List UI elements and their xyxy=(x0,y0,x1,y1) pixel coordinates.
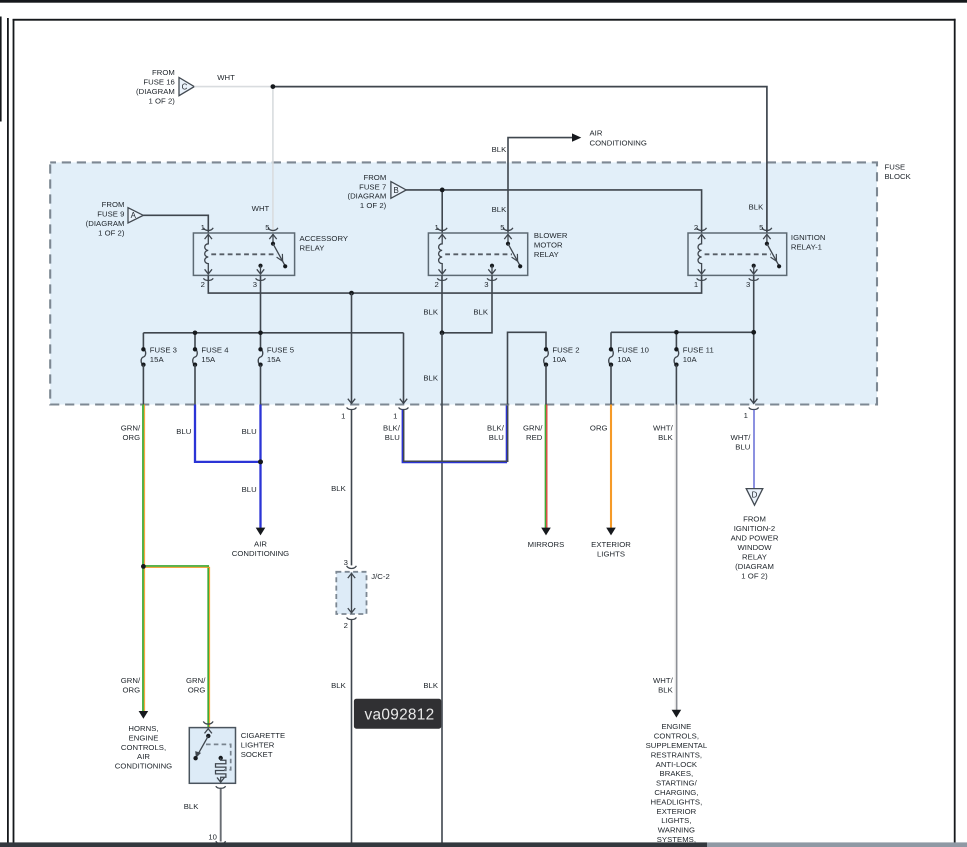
relay : BLOWER MOTOR RELAY xyxy=(428,223,568,289)
svg-text:BRAKES,: BRAKES, xyxy=(660,769,694,778)
wire : left fuse rail xyxy=(143,332,403,334)
wire BLK : blower relay pin 5 up and right to AIR CONDITIONING xyxy=(508,138,572,233)
fuse F4 15A xyxy=(193,349,198,364)
svg-text:LIGHTER: LIGHTER xyxy=(241,740,275,749)
svg-text:RED: RED xyxy=(526,433,543,442)
wire : fuse 3 to block edge xyxy=(142,365,144,405)
fuse F5 15A xyxy=(258,349,263,364)
svg-text:1: 1 xyxy=(341,412,345,421)
svg-text:5: 5 xyxy=(759,223,763,232)
svg-text:10A: 10A xyxy=(683,355,698,364)
fuse F3 15A xyxy=(141,349,146,364)
svg-text:2: 2 xyxy=(344,621,348,630)
wire : fuse 4 to block edge xyxy=(194,365,196,405)
svg-text:GRN/: GRN/ xyxy=(523,424,543,433)
svg-text:FUSE: FUSE xyxy=(885,163,906,172)
connector triangle D : FROM IGNITION-2 xyxy=(746,489,763,506)
wire : ignition pin 3 down through rail to connector pin 1 xyxy=(753,275,755,403)
svg-text:ORG: ORG xyxy=(188,686,206,695)
svg-text:10A: 10A xyxy=(552,355,567,364)
wire : B junction down to blower relay pin 1 xyxy=(441,190,443,233)
svg-text:C: C xyxy=(182,82,188,91)
svg-text:ORG: ORG xyxy=(123,433,141,442)
svg-text:WHT/: WHT/ xyxy=(653,424,674,433)
svg-text:BLU: BLU xyxy=(176,427,191,436)
wire BLU : fuse 4 down and to junction xyxy=(195,405,261,462)
svg-text:BLK: BLK xyxy=(184,802,200,811)
svg-text:BLU: BLU xyxy=(735,443,750,452)
wire GRN/ORG : fuse 3 feed down to HORNS arrow xyxy=(142,405,144,712)
bottom border bar (dark) xyxy=(0,842,707,847)
svg-text:WHT: WHT xyxy=(252,204,270,213)
junction on 293-bus for J/C-2 drop xyxy=(349,291,354,296)
svg-text:CONDITIONING: CONDITIONING xyxy=(232,549,289,558)
svg-text:5: 5 xyxy=(265,223,269,232)
svg-text:ENGINE: ENGINE xyxy=(662,722,692,731)
wire : rail to fuse 11 xyxy=(675,332,677,349)
wire : rail to fuse 3 xyxy=(142,333,144,350)
wire WHT/BLU : connector 1 to triangle D xyxy=(753,410,755,489)
svg-text:RELAY-1: RELAY-1 xyxy=(791,243,822,252)
svg-text:FUSE 5: FUSE 5 xyxy=(267,345,294,354)
svg-text:BLK: BLK xyxy=(749,203,765,212)
svg-text:AND POWER: AND POWER xyxy=(731,533,779,542)
svg-text:2: 2 xyxy=(694,223,698,232)
wire : rail to fuse 10 xyxy=(610,332,612,349)
svg-text:ACCESSORY: ACCESSORY xyxy=(300,234,349,243)
svg-text:STARTING/: STARTING/ xyxy=(656,779,698,788)
arrow to AIR CONDITIONING xyxy=(572,133,581,141)
svg-text:FUSE 11: FUSE 11 xyxy=(683,345,714,354)
arrow to ENGINE CONTROLS xyxy=(672,710,682,718)
svg-text:15A: 15A xyxy=(201,355,216,364)
svg-text:FUSE 10: FUSE 10 xyxy=(617,345,649,354)
svg-text:WHT: WHT xyxy=(217,73,235,82)
wire GRN/ORG : branch to cigarette lighter socket xyxy=(143,566,208,727)
svg-text:AIR: AIR xyxy=(254,539,267,548)
wire ORG : fuse 10 to EXTERIOR LIGHTS xyxy=(610,405,612,529)
svg-text:CHARGING,: CHARGING, xyxy=(654,788,698,797)
svg-text:BLU: BLU xyxy=(242,485,257,494)
wire : triangle A to accessory relay pin 1 xyxy=(143,215,208,233)
wire : 293-bus down to block edge connector pin 1 xyxy=(351,293,353,404)
wire WHT : junction down to accessory relay pin 5 xyxy=(272,87,274,233)
wire : fuse 11 to block edge xyxy=(675,365,677,405)
wire : BLK/BLU riser to fuse 2 rail xyxy=(508,332,547,404)
wire : rail drop to connector pin 1 (BLK/BLU feed) xyxy=(403,333,405,404)
svg-text:BLOCK: BLOCK xyxy=(885,172,912,181)
svg-text:1 OF 2): 1 OF 2) xyxy=(98,228,125,237)
svg-text:RELAY: RELAY xyxy=(300,244,325,253)
svg-text:ANTI-LOCK: ANTI-LOCK xyxy=(656,760,698,769)
svg-text:(DIAGRAM: (DIAGRAM xyxy=(86,219,125,228)
svg-text:1: 1 xyxy=(744,411,748,420)
wire BLK : blower relay ground run to bottom xyxy=(441,333,443,843)
svg-text:LIGHTS,: LIGHTS, xyxy=(661,816,691,825)
svg-text:CONTROLS,: CONTROLS, xyxy=(121,743,166,752)
fuse F10 10A xyxy=(609,349,614,364)
svg-text:1 OF 2): 1 OF 2) xyxy=(148,96,175,105)
svg-text:va092812: va092812 xyxy=(365,706,435,723)
svg-text:15A: 15A xyxy=(150,355,165,364)
wire : rail to fuse 4 xyxy=(194,333,196,350)
svg-text:15A: 15A xyxy=(267,355,282,364)
svg-text:IGNITION: IGNITION xyxy=(791,233,826,242)
wire GRN/RED : fuse 2 to MIRRORS xyxy=(544,405,546,529)
arrow to MIRRORS xyxy=(541,528,551,536)
svg-text:1: 1 xyxy=(393,412,397,421)
svg-text:WHT/: WHT/ xyxy=(653,676,674,685)
wire : triangle B to ignition relay-1 pin 2 xyxy=(406,190,702,233)
svg-text:BLK: BLK xyxy=(331,484,347,493)
svg-text:BLK: BLK xyxy=(492,145,508,154)
svg-text:AIR: AIR xyxy=(137,752,150,761)
svg-text:AIR: AIR xyxy=(590,128,603,137)
svg-text:1: 1 xyxy=(201,223,205,232)
svg-text:3: 3 xyxy=(253,280,257,289)
svg-text:2: 2 xyxy=(434,280,438,289)
svg-text:BLK/: BLK/ xyxy=(487,424,505,433)
svg-text:10A: 10A xyxy=(617,355,632,364)
svg-text:B: B xyxy=(394,186,399,195)
junction connector J/C-2 xyxy=(347,566,357,569)
svg-text:SUPPLEMENTAL: SUPPLEMENTAL xyxy=(646,741,708,750)
svg-text:CONTROLS,: CONTROLS, xyxy=(654,732,699,741)
svg-text:SOCKET: SOCKET xyxy=(241,750,273,759)
svg-text:3: 3 xyxy=(344,558,348,567)
svg-text:CONDITIONING: CONDITIONING xyxy=(590,139,647,148)
svg-text:BLK/: BLK/ xyxy=(383,424,401,433)
svg-text:BLK: BLK xyxy=(423,681,439,690)
wire BLK : J/C-2 to bottom xyxy=(351,620,353,844)
arrow to AIR CONDITIONING (blue) xyxy=(256,528,266,536)
svg-text:FROM: FROM xyxy=(743,514,766,523)
svg-text:FUSE 2: FUSE 2 xyxy=(552,345,579,354)
svg-text:BLK: BLK xyxy=(473,308,489,317)
svg-text:BLK: BLK xyxy=(331,681,347,690)
wire : fuse 10 to block edge xyxy=(610,365,612,405)
svg-text:BLU: BLU xyxy=(385,433,400,442)
junction C-wire xyxy=(271,84,276,89)
svg-text:ORG: ORG xyxy=(590,424,608,433)
svg-text:RELAY: RELAY xyxy=(534,250,559,259)
svg-text:WINDOW: WINDOW xyxy=(737,543,772,552)
relay : IGNITION RELAY-1 xyxy=(688,223,825,289)
svg-text:3: 3 xyxy=(746,280,750,289)
wire BLK : socket pin 10 to bottom connector xyxy=(216,786,226,788)
svg-text:BLK: BLK xyxy=(423,308,439,317)
svg-text:BLK: BLK xyxy=(658,433,674,442)
svg-text:1: 1 xyxy=(694,280,698,289)
svg-text:HORNS,: HORNS, xyxy=(128,724,158,733)
svg-text:EXTERIOR: EXTERIOR xyxy=(591,540,631,549)
svg-text:3: 3 xyxy=(484,280,488,289)
svg-text:BLK: BLK xyxy=(492,205,508,214)
svg-text:FROM: FROM xyxy=(152,68,175,77)
svg-text:10: 10 xyxy=(208,832,217,841)
svg-text:FUSE 7: FUSE 7 xyxy=(359,182,386,191)
svg-text:FROM: FROM xyxy=(102,200,125,209)
wire BLK/BLU : U link from connector 1 to fuse 2 riser xyxy=(402,406,506,463)
svg-text:MOTOR: MOTOR xyxy=(534,241,563,250)
wire : fuse 2 to block edge xyxy=(545,365,547,405)
fuse block (dashed enclosure) xyxy=(50,162,877,404)
svg-text:2: 2 xyxy=(201,280,205,289)
watermark badge va092812 xyxy=(354,699,441,729)
bottom border bar (light) xyxy=(707,842,967,847)
wire WHT/BLK : fuse 11 to ENGINE CONTROLS xyxy=(674,405,676,711)
svg-text:LIGHTS: LIGHTS xyxy=(597,550,625,559)
svg-text:BLK: BLK xyxy=(423,373,439,382)
svg-text:(DIAGRAM: (DIAGRAM xyxy=(136,87,175,96)
wire : rail to fuse 5 xyxy=(260,333,262,350)
page frame top bar xyxy=(0,0,967,3)
svg-text:(DIAGRAM: (DIAGRAM xyxy=(347,192,386,201)
arrow to EXTERIOR LIGHTS xyxy=(606,528,616,536)
wire BLU : fuse 5 down to AIR CONDITIONING arrow xyxy=(259,405,261,529)
svg-text:BLOWER: BLOWER xyxy=(534,231,568,240)
page frame left double lines xyxy=(7,18,9,847)
svg-text:CIGARETTE: CIGARETTE xyxy=(241,731,285,740)
svg-text:WARNING: WARNING xyxy=(658,826,695,835)
wire : blower pin 2 and pin 3 merge xyxy=(442,275,492,332)
wire : fuse 5 to block edge xyxy=(260,365,262,405)
svg-text:EXTERIOR: EXTERIOR xyxy=(657,807,697,816)
svg-text:RELAY: RELAY xyxy=(742,552,767,561)
svg-text:BLU: BLU xyxy=(489,433,504,442)
cigarette lighter socket xyxy=(189,721,235,783)
wire : accessory pin 2 to ignition pin 1 bus xyxy=(208,275,701,293)
svg-text:ORG: ORG xyxy=(123,686,141,695)
svg-text:GRN/: GRN/ xyxy=(121,676,141,685)
fuse F2 10A xyxy=(544,349,549,364)
svg-text:1 OF 2): 1 OF 2) xyxy=(360,201,387,210)
svg-text:IGNITION-2: IGNITION-2 xyxy=(734,524,776,533)
svg-text:A: A xyxy=(131,211,137,220)
svg-text:1: 1 xyxy=(434,223,438,232)
svg-text:FUSE 4: FUSE 4 xyxy=(201,345,229,354)
svg-text:1 OF 2): 1 OF 2) xyxy=(741,571,768,580)
svg-text:J/C-2: J/C-2 xyxy=(371,572,390,581)
svg-text:RESTRAINTS,: RESTRAINTS, xyxy=(651,750,702,759)
wire WHT : triangle C to junction xyxy=(194,86,273,88)
svg-text:CONDITIONING: CONDITIONING xyxy=(115,762,172,771)
wire : accessory pin 3 down to left fuse rail xyxy=(260,275,262,332)
svg-text:BLK: BLK xyxy=(658,686,674,695)
svg-text:FUSE 16: FUSE 16 xyxy=(143,78,175,87)
svg-text:(DIAGRAM: (DIAGRAM xyxy=(735,562,774,571)
svg-text:FUSE 3: FUSE 3 xyxy=(150,345,177,354)
svg-text:FUSE 9: FUSE 9 xyxy=(97,210,124,219)
svg-text:MIRRORS: MIRRORS xyxy=(528,540,565,549)
svg-text:ENGINE: ENGINE xyxy=(129,733,159,742)
page frame left outer line xyxy=(0,17,2,122)
arrow to HORNS etc xyxy=(139,711,149,719)
svg-text:HEADLIGHTS,: HEADLIGHTS, xyxy=(650,797,702,806)
svg-text:WHT/: WHT/ xyxy=(731,433,752,442)
svg-text:FROM: FROM xyxy=(363,173,386,182)
fuse F11 10A xyxy=(674,349,679,364)
wire : right fuse rail xyxy=(611,331,754,333)
page frame right rule xyxy=(954,19,956,843)
svg-text:GRN/: GRN/ xyxy=(121,424,141,433)
page frame top rule xyxy=(13,19,956,21)
svg-text:GRN/: GRN/ xyxy=(186,676,206,685)
svg-text:D: D xyxy=(752,491,758,500)
svg-text:5: 5 xyxy=(500,223,504,232)
junction B-wire xyxy=(440,188,445,193)
svg-text:BLU: BLU xyxy=(242,427,257,436)
wire BLK : J/C-2 run xyxy=(351,410,353,566)
wire BLK : junction to ignition relay-1 pin 5 xyxy=(273,87,767,233)
relay : ACCESSORY RELAY xyxy=(193,223,348,289)
